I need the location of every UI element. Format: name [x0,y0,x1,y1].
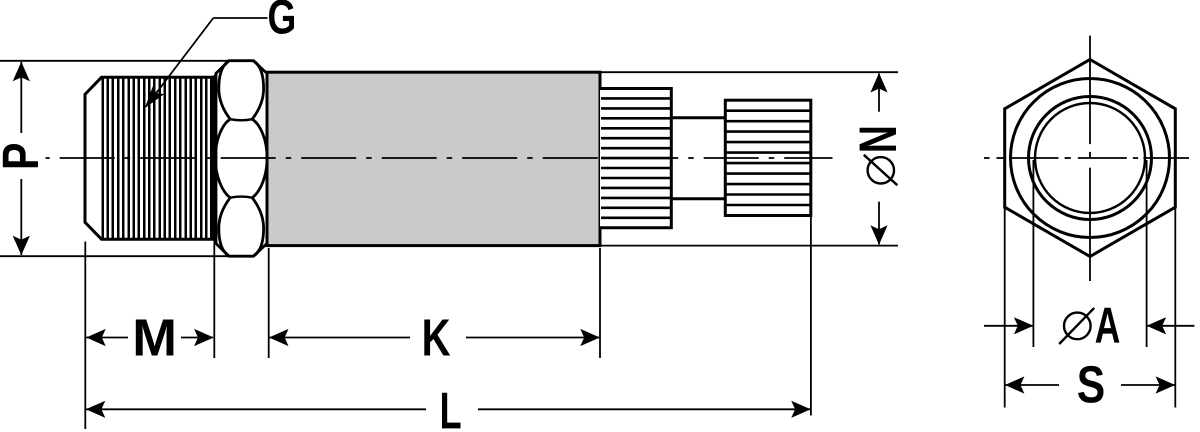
thread-hex transition bottom [214,239,230,256]
thread-hex transition top [214,61,230,77]
thread body outline [85,77,214,239]
label A [1096,308,1120,343]
L dimension line [86,401,811,418]
thread minor circle [1035,103,1145,213]
hex nut side outline [216,61,267,257]
end view horizontal centerline [984,157,1189,159]
hex nut face arcs [215,61,267,257]
P extension line top [0,60,229,62]
K extension line right [599,248,601,358]
S extension line left [1004,207,1006,408]
P extension line bottom [0,255,231,257]
diameter symbol for N [864,155,898,185]
extension line body bottom [601,245,898,247]
S extension line right [1174,207,1176,408]
end view vertical centerline [1089,36,1091,281]
M dimension line [86,329,214,346]
A extension line right [1146,160,1148,347]
hex nut end view [1005,60,1176,257]
L extension line left [84,242,86,430]
A extension line left [1032,160,1034,347]
G leader line [139,18,267,112]
label N [860,128,896,151]
A dimension line [984,317,1195,334]
label K [424,320,450,356]
diameter symbol for A [1059,308,1094,344]
main body (gray) [267,72,600,245]
label L [442,393,460,429]
label G [269,0,294,34]
P dimension line [13,62,30,255]
extension line body top [601,71,898,73]
thread lines [103,78,212,238]
knurled knob [725,100,811,215]
label S [1078,366,1103,403]
M extension line right [213,242,215,359]
shaft [671,118,725,199]
ribbed section [600,89,671,228]
S dimension line [1005,376,1176,393]
centerline side view [46,157,833,159]
outer circle [1011,79,1170,238]
N dimension line [870,73,887,245]
thread major circle [1029,97,1152,220]
K dimension line [269,329,600,346]
label P [3,144,38,167]
L extension line right [810,217,812,416]
K extension line left [268,248,270,358]
label M [136,320,174,356]
